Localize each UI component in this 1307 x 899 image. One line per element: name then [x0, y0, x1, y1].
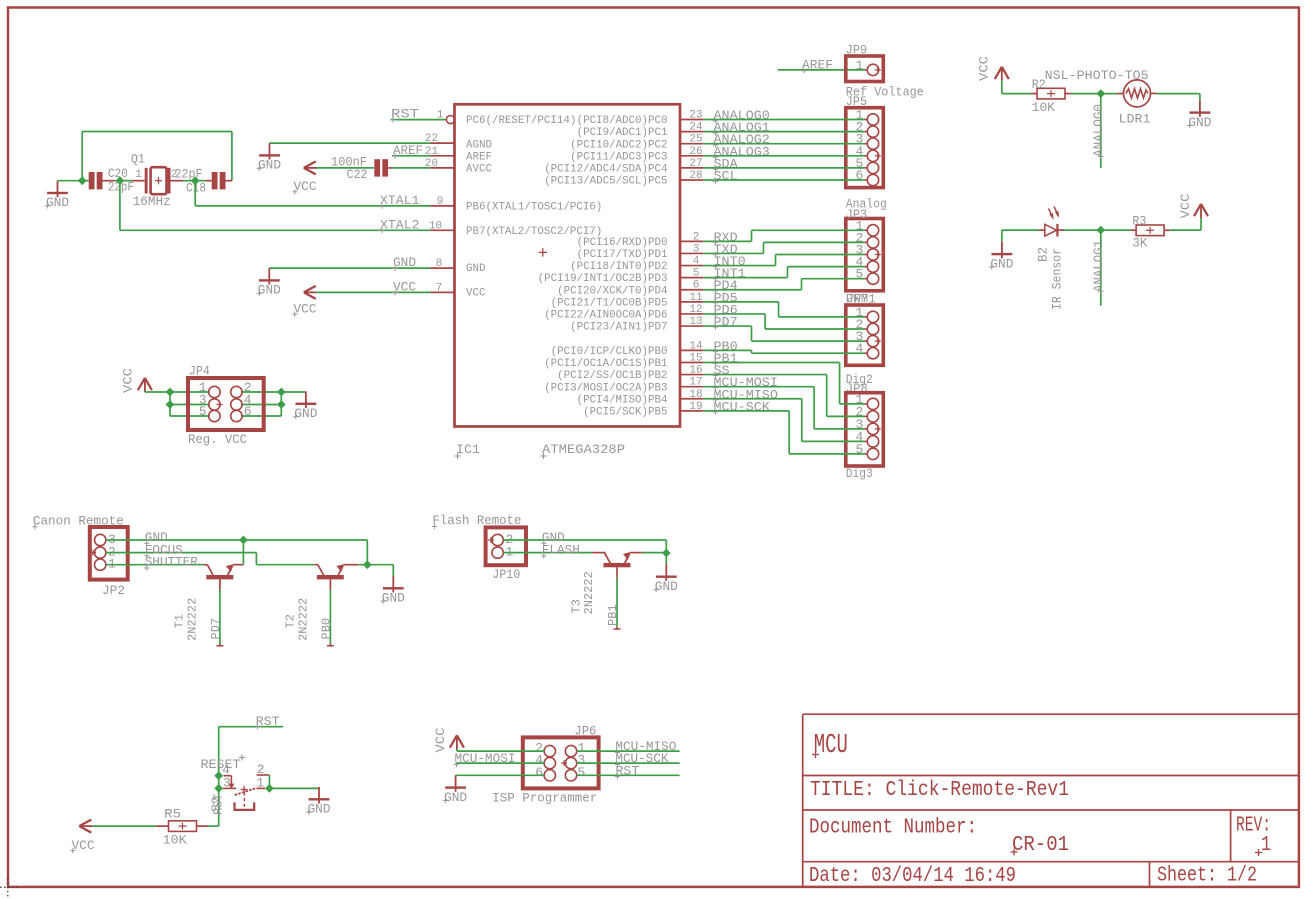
- svg-text:PB7(XTAL2/TOSC2/PCI7): PB7(XTAL2/TOSC2/PCI7): [466, 226, 602, 238]
- svg-text:PD7: PD7: [209, 618, 223, 640]
- svg-text:10K: 10K: [163, 833, 187, 848]
- svg-text:(PCI19/INT1/OC2B)PD3: (PCI19/INT1/OC2B)PD3: [538, 273, 668, 285]
- svg-text:8: 8: [436, 258, 443, 270]
- svg-text:4: 4: [693, 256, 700, 268]
- svg-text:(PCI13/ADC5/SCL)PC5: (PCI13/ADC5/SCL)PC5: [544, 176, 667, 188]
- svg-text:(PCI23/AIN1)PD7: (PCI23/AIN1)PD7: [570, 322, 667, 334]
- svg-text:16MHz: 16MHz: [133, 194, 171, 209]
- svg-text:Dig3: Dig3: [846, 466, 873, 481]
- svg-text:9: 9: [437, 196, 444, 208]
- svg-text:VCC: VCC: [433, 727, 448, 752]
- svg-text:VCC: VCC: [977, 56, 992, 81]
- svg-text:ANALOG1: ANALOG1: [1091, 240, 1106, 292]
- svg-text:B2: B2: [1036, 247, 1051, 262]
- svg-text:JP2: JP2: [102, 583, 125, 598]
- svg-text:(PCI8/ADC0)PC0: (PCI8/ADC0)PC0: [577, 115, 668, 127]
- svg-text:(PCI4/MISO)PB4: (PCI4/MISO)PB4: [577, 394, 668, 406]
- svg-text:(PCI17/TXD)PD1: (PCI17/TXD)PD1: [577, 249, 668, 261]
- svg-text:11: 11: [689, 292, 703, 304]
- svg-text:19: 19: [689, 401, 702, 413]
- svg-text:T2: T2: [284, 614, 298, 628]
- svg-text:5: 5: [199, 404, 207, 419]
- svg-text:IR Sensor: IR Sensor: [1050, 248, 1065, 310]
- svg-text:13: 13: [689, 316, 702, 328]
- svg-text:GND: GND: [444, 790, 467, 805]
- svg-text:Q1: Q1: [131, 151, 145, 166]
- svg-text:1: 1: [437, 110, 444, 122]
- svg-text:FLASH: FLASH: [542, 543, 580, 558]
- svg-text:PB0: PB0: [320, 618, 334, 640]
- svg-text:ANALOG0: ANALOG0: [1091, 104, 1106, 157]
- svg-text:JP9: JP9: [846, 43, 867, 58]
- svg-text:22pF: 22pF: [175, 167, 203, 182]
- svg-text:(PCI20/XCK/T0)PD4: (PCI20/XCK/T0)PD4: [557, 285, 668, 297]
- svg-text:6: 6: [244, 404, 252, 419]
- svg-text:GND: GND: [258, 158, 281, 173]
- svg-text:JP10: JP10: [492, 567, 520, 582]
- svg-text:GND: GND: [466, 263, 486, 275]
- svg-text:2: 2: [693, 231, 700, 243]
- svg-text:R2: R2: [1032, 77, 1046, 92]
- svg-text:AGND: AGND: [466, 139, 492, 151]
- svg-text:NSL-PHOTO-TO5: NSL-PHOTO-TO5: [1045, 68, 1149, 83]
- svg-text:1: 1: [135, 169, 142, 181]
- svg-text:GND: GND: [990, 256, 1013, 271]
- svg-text:28: 28: [689, 170, 702, 182]
- svg-text:AVCC: AVCC: [466, 164, 492, 176]
- svg-text:27: 27: [689, 158, 702, 170]
- svg-text:2N2222: 2N2222: [186, 598, 200, 641]
- svg-text:(PCI1/OC1A/OC1S)PB1: (PCI1/OC1A/OC1S)PB1: [544, 358, 668, 370]
- svg-text:24: 24: [689, 122, 703, 134]
- svg-text:R3: R3: [1132, 214, 1146, 229]
- svg-text:5: 5: [693, 268, 700, 280]
- svg-text:10: 10: [429, 220, 442, 232]
- svg-text:2N2222: 2N2222: [582, 571, 596, 614]
- svg-text:CR-01: CR-01: [1012, 833, 1069, 857]
- svg-text:GND: GND: [382, 591, 405, 606]
- svg-text:GND: GND: [294, 406, 317, 421]
- svg-text:GND: GND: [308, 802, 331, 817]
- svg-text:22pF: 22pF: [108, 180, 134, 195]
- svg-text:(PCI2/SS/OC1B)PB2: (PCI2/SS/OC1B)PB2: [557, 370, 667, 382]
- svg-text:(PCI12/ADC4/SDA)PC4: (PCI12/ADC4/SDA)PC4: [544, 164, 668, 176]
- svg-text:25: 25: [689, 134, 702, 146]
- svg-text:R5: R5: [164, 807, 181, 822]
- svg-text:Reg. VCC: Reg. VCC: [188, 432, 247, 447]
- svg-text:VCC: VCC: [466, 288, 486, 300]
- svg-text:AREF: AREF: [802, 57, 833, 72]
- svg-text:6: 6: [693, 280, 700, 292]
- svg-text:VCC: VCC: [121, 368, 136, 393]
- svg-text:GND: GND: [46, 195, 69, 210]
- svg-text:S2: S2: [209, 796, 224, 812]
- svg-text:15: 15: [689, 352, 702, 364]
- svg-text:17: 17: [689, 377, 702, 389]
- svg-text:MCU-SCK: MCU-SCK: [714, 399, 771, 414]
- svg-text:3K: 3K: [1132, 236, 1147, 251]
- svg-text:AREF: AREF: [466, 151, 492, 163]
- svg-text:18: 18: [689, 389, 702, 401]
- svg-text:JP3: JP3: [846, 207, 867, 222]
- svg-text:(PCI3/MOSI/OC2A)PB3: (PCI3/MOSI/OC2A)PB3: [544, 382, 667, 394]
- svg-text:(PCI16/RXD)PD0: (PCI16/RXD)PD0: [577, 237, 668, 249]
- svg-text:(PCI5/SCK)PB5: (PCI5/SCK)PB5: [583, 406, 667, 418]
- svg-text:12: 12: [689, 304, 702, 316]
- svg-text:GND: GND: [258, 283, 281, 298]
- svg-text:RST: RST: [391, 107, 419, 122]
- svg-text:(PCI22/AIN0OC0A)PD6: (PCI22/AIN0OC0A)PD6: [544, 310, 667, 322]
- svg-text:C22: C22: [347, 167, 368, 182]
- svg-text:23: 23: [689, 110, 702, 122]
- svg-text:IC1: IC1: [456, 442, 480, 457]
- svg-text:RST: RST: [615, 763, 639, 778]
- svg-text:(PCI21/T1/OC0B)PD5: (PCI21/T1/OC0B)PD5: [551, 297, 668, 309]
- svg-text:3: 3: [693, 243, 700, 255]
- svg-text:MCU-MOSI: MCU-MOSI: [455, 751, 516, 766]
- svg-text:(PCI0/ICP/CLKO)PB0: (PCI0/ICP/CLKO)PB0: [551, 346, 668, 358]
- svg-text:(PCI18/INT0)PD2: (PCI18/INT0)PD2: [570, 261, 667, 273]
- svg-text:7: 7: [436, 282, 443, 294]
- svg-text:10K: 10K: [1032, 100, 1055, 115]
- svg-text:Sheet: 1/2: Sheet: 1/2: [1157, 864, 1257, 888]
- svg-text:14: 14: [689, 340, 703, 352]
- svg-text:LDR1: LDR1: [1119, 112, 1151, 127]
- svg-text:Document Number:: Document Number:: [809, 816, 977, 840]
- svg-text:1: 1: [1261, 833, 1271, 857]
- svg-text:5: 5: [578, 765, 586, 780]
- svg-text:16: 16: [689, 365, 702, 377]
- svg-text:TITLE: Click-Remote-Rev1: TITLE: Click-Remote-Rev1: [810, 778, 1069, 802]
- svg-text:ATMEGA328P: ATMEGA328P: [542, 442, 625, 457]
- svg-text:VCC: VCC: [1178, 193, 1193, 218]
- svg-text:GND: GND: [655, 579, 678, 594]
- svg-text:SHUTTER: SHUTTER: [145, 555, 198, 570]
- svg-text:MCU: MCU: [814, 731, 848, 761]
- svg-text:Date: 03/04/14 16:49: Date: 03/04/14 16:49: [809, 864, 1016, 888]
- svg-text:T1: T1: [173, 614, 187, 628]
- svg-text:ISP Programmer: ISP Programmer: [492, 791, 597, 806]
- svg-text:JP4: JP4: [189, 363, 210, 378]
- svg-text:PC6(/RESET/PCI14): PC6(/RESET/PCI14): [466, 115, 576, 127]
- svg-text:2N2222: 2N2222: [297, 598, 311, 641]
- svg-text:PB1: PB1: [606, 604, 620, 626]
- svg-text:(PCI9/ADC1)PC1: (PCI9/ADC1)PC1: [577, 127, 668, 139]
- svg-text:(PCI11/ADC3)PC3: (PCI11/ADC3)PC3: [570, 151, 667, 163]
- svg-text:RESET: RESET: [201, 757, 241, 772]
- svg-text:26: 26: [689, 146, 702, 158]
- svg-text:JP5: JP5: [846, 94, 867, 109]
- svg-text:1: 1: [855, 58, 863, 73]
- svg-text:PB6(XTAL1/TOSC1/PCI6): PB6(XTAL1/TOSC1/PCI6): [466, 202, 602, 214]
- svg-text:GND: GND: [1188, 115, 1211, 130]
- svg-text:(PCI10/ADC2)PC2: (PCI10/ADC2)PC2: [570, 139, 667, 151]
- svg-text:6: 6: [535, 765, 543, 780]
